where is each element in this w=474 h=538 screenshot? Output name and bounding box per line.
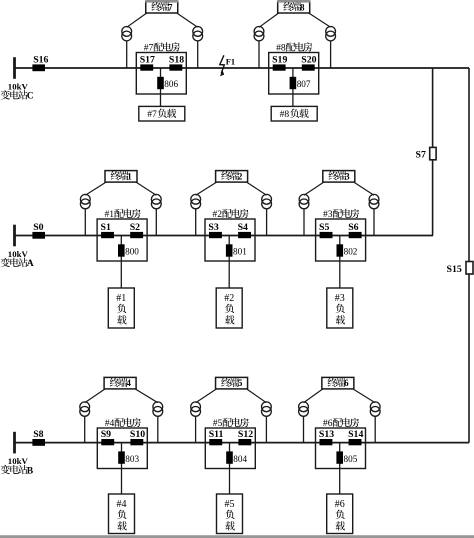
substation A bus bar — [1, 225, 34, 270]
wire tie line S7 (bus C to bus A) — [432, 68, 434, 236]
transformer CT 1l (double circle) — [80, 194, 90, 208]
terminal 7 (终端7) — [145, 0, 178, 13]
substation B bus bar — [1, 432, 34, 477]
breaker 800 (closed) — [118, 244, 139, 256]
transformer CT 2r (double circle) — [262, 194, 272, 208]
wire tap 7r to bus — [197, 41, 199, 68]
svg-text:S0: S0 — [33, 222, 43, 233]
svg-text:S19: S19 — [272, 55, 287, 66]
breaker 802 (closed) — [337, 244, 358, 256]
svg-text:#2: #2 — [224, 293, 234, 304]
distribution room #2 box (#2配电房) — [205, 209, 255, 261]
transformer CT 7l (double circle) — [122, 27, 132, 41]
terminal 5 (终端5) — [216, 377, 248, 389]
svg-text:F1: F1 — [226, 58, 235, 67]
svg-text:S3: S3 — [208, 222, 218, 233]
switch S20 (closed) — [301, 55, 316, 71]
svg-text:#3: #3 — [335, 293, 345, 304]
wire tap 7l to bus — [126, 41, 128, 68]
breaker 807 (closed) — [290, 77, 311, 89]
wire tap 3l to bus — [303, 209, 305, 236]
svg-text:#7: #7 — [147, 109, 157, 120]
transformer CT 5r (double circle) — [262, 402, 272, 416]
wire tap 1l to bus — [84, 209, 86, 236]
wire terminal 1 right diagonal — [136, 182, 156, 195]
switch S0 (closed) — [32, 222, 45, 239]
switch S4 (closed) — [238, 222, 251, 238]
switch S15 (open) — [447, 262, 474, 276]
wire terminal 7 right diagonal — [177, 13, 198, 27]
wire tie line S15 (bus C to bus B) — [468, 68, 470, 443]
svg-text:5: 5 — [238, 378, 243, 388]
switch S9 (closed) — [101, 429, 115, 445]
load #5 box (#5负载) — [217, 494, 243, 534]
wire feeder #7 (bus to load) — [160, 68, 162, 106]
load #6 box (#6负载) — [327, 494, 353, 534]
wire tap 6r to bus — [374, 416, 376, 442]
svg-text:803: 803 — [125, 454, 139, 464]
switch S7 (open) — [416, 147, 437, 160]
wire tap 2r to bus — [266, 209, 268, 236]
transformer CT 7r (double circle) — [193, 27, 203, 41]
svg-text:S10: S10 — [130, 429, 145, 440]
load #8 box (#8负载) — [271, 106, 317, 121]
svg-text:C: C — [27, 91, 34, 102]
svg-text:#5: #5 — [213, 418, 223, 429]
scan artifact bottom edge — [0, 535, 474, 538]
svg-text:#4: #4 — [117, 499, 127, 510]
svg-text:3: 3 — [345, 171, 350, 181]
wire terminal 5 left diagonal — [196, 389, 217, 403]
wire terminal 8 right diagonal — [309, 13, 331, 27]
load #7 box (#7负载) — [139, 106, 185, 121]
svg-text:S5: S5 — [319, 222, 329, 233]
wire tap 8r to bus — [330, 41, 332, 68]
load #2 box (#2负载) — [216, 288, 242, 328]
terminal 6 (终端6) — [322, 377, 354, 389]
bus C (10kV substation C feeder) — [15, 67, 470, 69]
wire tap 4r to bus — [157, 416, 159, 442]
svg-text:#6: #6 — [335, 499, 345, 510]
wire feeder #8 (bus to load) — [292, 68, 294, 106]
wire tap 5r to bus — [265, 416, 267, 442]
transformer CT 4r (double circle) — [153, 402, 163, 416]
wire tap 3r to bus — [373, 209, 375, 236]
wire tap 2l to bus — [195, 209, 197, 236]
breaker 801 (closed) — [226, 244, 247, 256]
bus B (10kV substation B feeder) — [15, 442, 470, 444]
fault F1 (lightning symbol) — [220, 55, 235, 76]
svg-text:S11: S11 — [209, 429, 224, 440]
load #4 box (#4负载) — [109, 494, 135, 534]
wire tap 6l to bus — [303, 416, 305, 442]
breaker 805 (closed) — [336, 451, 357, 463]
wire feeder #3 (bus to load) — [339, 236, 341, 289]
switch S2 (closed) — [130, 222, 143, 238]
switch S19 (closed) — [272, 55, 287, 71]
svg-text:S8: S8 — [33, 429, 43, 440]
transformer CT 2l (double circle) — [191, 194, 201, 208]
distribution room #7 box (#7配电房) — [136, 42, 186, 94]
distribution room #4 box (#4配电房) — [97, 418, 147, 469]
wire terminal 4 left diagonal — [85, 389, 105, 403]
switch S3 (closed) — [208, 222, 222, 238]
transformer CT 3l (double circle) — [299, 194, 309, 208]
svg-text:802: 802 — [344, 247, 358, 257]
switch S5 (closed) — [319, 222, 333, 238]
svg-text:7: 7 — [168, 2, 173, 12]
wire terminal 3 right diagonal — [354, 182, 374, 195]
svg-text:S17: S17 — [140, 55, 155, 66]
transformer CT 4l (double circle) — [80, 402, 90, 416]
svg-text:#3: #3 — [323, 209, 333, 220]
svg-text:A: A — [27, 258, 34, 269]
svg-text:804: 804 — [233, 454, 247, 464]
switch S13 (closed) — [319, 429, 334, 445]
substation C bus bar — [1, 57, 34, 101]
svg-text:S1: S1 — [101, 222, 111, 233]
wire terminal 2 left diagonal — [196, 182, 217, 195]
svg-text:#1: #1 — [116, 293, 126, 304]
bus A (10kV substation A feeder) — [15, 235, 434, 237]
svg-text:10kV: 10kV — [8, 249, 29, 259]
terminal 4 (终端4) — [104, 377, 136, 389]
switch S11 (closed) — [209, 429, 224, 445]
svg-text:S6: S6 — [348, 222, 358, 233]
svg-text:#1: #1 — [105, 209, 115, 220]
switch S17 (closed) — [140, 55, 155, 71]
svg-text:1: 1 — [127, 171, 132, 181]
breaker 806 (closed) — [157, 77, 178, 89]
svg-text:#7: #7 — [144, 43, 154, 54]
transformer CT 6l (double circle) — [299, 402, 309, 416]
wire terminal 6 right diagonal — [353, 389, 375, 403]
svg-text:801: 801 — [233, 247, 247, 257]
breaker 803 (closed) — [118, 451, 139, 463]
switch S1 (closed) — [101, 222, 115, 238]
switch S16 (closed) — [32, 54, 48, 71]
transformer CT 8l (double circle) — [254, 27, 264, 41]
svg-text:S14: S14 — [348, 429, 363, 440]
svg-text:8: 8 — [300, 2, 305, 12]
svg-text:S4: S4 — [238, 222, 248, 233]
switch S10 (closed) — [130, 429, 145, 445]
wire terminal 6 left diagonal — [304, 389, 323, 403]
transformer CT 1r (double circle) — [151, 194, 161, 208]
svg-text:S20: S20 — [301, 55, 316, 66]
svg-text:#8: #8 — [276, 43, 286, 54]
wire feeder #4 (bus to load) — [121, 443, 123, 494]
svg-text:#5: #5 — [225, 499, 235, 510]
wire feeder #2 (bus to load) — [228, 236, 230, 289]
terminal 2 (终端2) — [216, 171, 248, 183]
wire tap 1r to bus — [155, 209, 157, 236]
svg-text:S12: S12 — [238, 429, 253, 440]
svg-text:10kV: 10kV — [8, 82, 29, 92]
wire terminal 4 right diagonal — [135, 389, 158, 403]
svg-text:S7: S7 — [416, 150, 426, 161]
switch S14 (closed) — [348, 429, 363, 445]
svg-text:805: 805 — [344, 454, 358, 464]
distribution room #1 box (#1配电房) — [97, 209, 147, 261]
svg-text:S18: S18 — [169, 55, 184, 66]
distribution room #3 box (#3配电房) — [316, 209, 366, 261]
switch S8 (closed) — [32, 429, 45, 446]
wire terminal 7 left diagonal — [127, 13, 147, 27]
svg-text:S15: S15 — [447, 264, 462, 275]
svg-text:#4: #4 — [105, 418, 115, 429]
transformer CT 3r (double circle) — [369, 194, 379, 208]
transformer CT 5l (double circle) — [191, 402, 201, 416]
switch S6 (closed) — [348, 222, 361, 238]
svg-text:4: 4 — [126, 378, 131, 388]
load #1 box (#1负载) — [108, 288, 134, 328]
wire feeder #6 (bus to load) — [339, 443, 341, 494]
wire terminal 2 right diagonal — [247, 182, 267, 195]
svg-text:#6: #6 — [323, 418, 333, 429]
terminal 3 (终端3) — [323, 171, 355, 183]
wire terminal 3 left diagonal — [304, 182, 324, 195]
transformer CT 6r (double circle) — [370, 402, 380, 416]
wire tap 8l to bus — [258, 41, 260, 68]
svg-text:S9: S9 — [101, 429, 111, 440]
terminal 1 (终端1) — [105, 171, 137, 183]
wire tap 5l to bus — [195, 416, 197, 442]
svg-text:S2: S2 — [130, 222, 140, 233]
transformer CT 8r (double circle) — [326, 27, 336, 41]
wire terminal 8 left diagonal — [259, 13, 279, 27]
svg-text:S16: S16 — [33, 54, 48, 65]
svg-text:6: 6 — [344, 378, 349, 388]
wire tap 4l to bus — [84, 416, 86, 442]
terminal 8 (终端8) — [277, 0, 310, 13]
switch S12 (closed) — [238, 429, 253, 445]
wire terminal 1 left diagonal — [85, 182, 106, 195]
svg-text:#2: #2 — [212, 209, 222, 220]
distribution room #5 box (#5配电房) — [205, 418, 255, 469]
wire feeder #1 (bus to load) — [120, 236, 122, 289]
wire feeder #5 (bus to load) — [229, 443, 231, 494]
wire terminal 5 right diagonal — [247, 389, 267, 403]
svg-text:B: B — [27, 465, 34, 476]
svg-text:806: 806 — [164, 79, 178, 89]
load #3 box (#3负载) — [327, 288, 353, 328]
svg-text:807: 807 — [297, 79, 311, 89]
svg-text:#8: #8 — [280, 109, 290, 120]
svg-text:800: 800 — [125, 247, 139, 257]
distribution room #8 box (#8配电房) — [269, 42, 319, 94]
switch S18 (closed) — [169, 55, 184, 71]
svg-text:10kV: 10kV — [8, 456, 29, 466]
distribution room #6 box (#6配电房) — [316, 418, 366, 469]
breaker 804 (closed) — [226, 451, 247, 463]
svg-text:S13: S13 — [319, 429, 334, 440]
svg-text:2: 2 — [238, 171, 243, 181]
